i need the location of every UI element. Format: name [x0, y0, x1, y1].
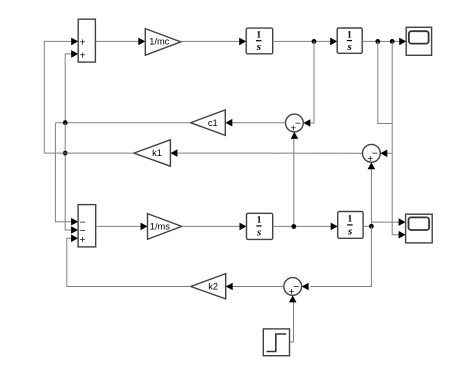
wire c1-feedback to Sum1 input2 [65, 50, 78, 123]
wire 1/mc to integrator I1 [181, 38, 246, 46]
node vs (dot on I3-I4 wire) [291, 224, 296, 229]
wire SumM to gain 1/ms [96, 223, 148, 231]
sum junction SumR [363, 144, 381, 164]
svg-text:1/ms: 1/ms [150, 222, 170, 232]
wire SumR right input stub [380, 150, 392, 158]
wire vc branch down to SumC right input [303, 41, 314, 126]
wire k2-feedback to SumM input3 [67, 235, 78, 287]
node xs (dot after I4) [369, 224, 374, 229]
sum junction SumC [286, 114, 304, 135]
svg-text:s: s [256, 226, 261, 238]
svg-text:1: 1 [256, 30, 261, 40]
wire mid drop to SumM input2 [65, 123, 78, 234]
wire SumS to gain k2 [226, 283, 284, 291]
integrator I1 [246, 28, 273, 54]
svg-text:+: + [367, 154, 373, 165]
svg-text:k2: k2 [208, 281, 218, 291]
node xc-a (dot after I2) [375, 39, 380, 44]
sum block Sum1 [78, 19, 95, 62]
node xc-b (dot after I2 near scope) [390, 39, 395, 44]
wire xc-a jog joining right vertical [378, 41, 392, 123]
svg-text:+: + [80, 235, 86, 246]
wire I1 to integrator I2 [273, 38, 338, 46]
wire I4 to node xs [363, 225, 371, 227]
wire Step to SumS bottom input [289, 295, 297, 342]
wire xs branch up to SumR bottom input [368, 162, 376, 226]
gain c1 [191, 110, 226, 135]
svg-text:1: 1 [257, 216, 262, 226]
gain 1/mc [145, 29, 181, 56]
svg-text:k1: k1 [152, 148, 162, 158]
svg-text:c1: c1 [208, 118, 218, 128]
gain k2 [191, 274, 226, 299]
svg-text:s: s [346, 41, 351, 53]
wire 1/ms to integrator I3 [182, 223, 247, 231]
sum block SumM [78, 205, 96, 247]
wire I2 to Scope1 [362, 38, 406, 46]
svg-text:+: + [290, 124, 296, 135]
node c1-branch (dot on c1 output) [63, 120, 68, 125]
svg-text:1: 1 [348, 215, 353, 225]
wire c1 output to left corner [55, 122, 190, 124]
step source block [263, 329, 289, 356]
scope Scope2 [406, 214, 433, 243]
wire I3 to integrator I4 [273, 223, 338, 231]
node k1-branch (dot on k1 output) [63, 151, 68, 156]
wire xs to Scope2 input1 [371, 218, 405, 226]
wire left drop to SumM input1 [55, 123, 78, 226]
wire SumR to gain k1 [170, 149, 362, 157]
integrator I4 [338, 212, 363, 239]
svg-text:+: + [80, 50, 86, 61]
gain k1 [134, 140, 171, 166]
svg-text:1/mc: 1/mc [149, 37, 169, 47]
integrator I3 [247, 213, 273, 239]
svg-text:1: 1 [347, 30, 352, 40]
svg-text:+: + [80, 38, 86, 49]
sum junction SumS [284, 278, 302, 299]
wire xs drop to SumS right input [302, 226, 372, 290]
integrator I2 [337, 28, 362, 53]
svg-text:s: s [256, 41, 261, 53]
wire k1 output to left corner [44, 152, 134, 154]
wire SumC to gain c1 [225, 119, 285, 127]
svg-text:s: s [347, 225, 352, 237]
wire Sum1 to gain 1/mc [95, 38, 145, 46]
gain 1/ms [148, 214, 182, 240]
wire k2 output to left corner [67, 286, 191, 288]
scope Scope1 [406, 27, 431, 55]
wire k1-feedback to Sum1 input1 [44, 38, 78, 154]
wire xc-b drop to SumR and Scope2 input2 [392, 41, 405, 238]
wire vs branch up to SumC bottom input [291, 132, 299, 227]
svg-text:+: + [289, 287, 295, 298]
node vc (dot on I1-I2 wire) [312, 39, 317, 44]
